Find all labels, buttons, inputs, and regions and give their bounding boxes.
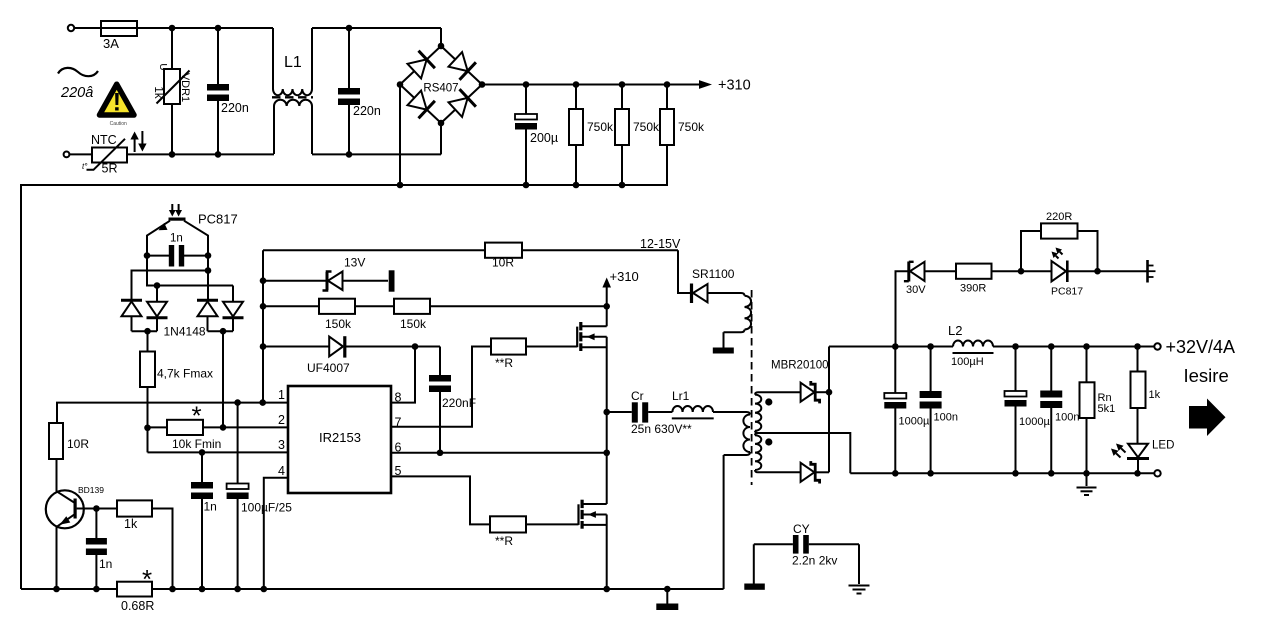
secondary A polarity dot xyxy=(765,398,772,405)
svg-text:NTC: NTC xyxy=(91,133,117,147)
svg-text:L2: L2 xyxy=(948,323,962,338)
svg-text:100µH: 100µH xyxy=(951,356,984,368)
varistor VDR1 xyxy=(152,28,191,154)
node gnd/C12 xyxy=(1012,470,1019,477)
resistor R4 4.7k xyxy=(140,331,213,452)
capacitor C6 1n xyxy=(191,452,217,589)
svg-text:1n: 1n xyxy=(170,233,183,245)
node mid/Cr xyxy=(603,409,610,416)
label MBR20100 xyxy=(771,360,829,372)
capacitor C11 100n xyxy=(920,347,958,474)
node rail/C14 xyxy=(93,586,100,593)
svg-text:Iesire: Iesire xyxy=(1184,365,1229,386)
12-15V supply wire xyxy=(263,237,681,251)
svg-text:SR1100: SR1100 xyxy=(692,267,735,281)
svg-text:**R: **R xyxy=(495,534,513,548)
svg-text:Lr1: Lr1 xyxy=(672,389,690,403)
+32V output terminal xyxy=(1154,343,1160,349)
bridge node top xyxy=(438,43,445,50)
pin label 1 xyxy=(278,388,285,402)
svg-text:220â: 220â xyxy=(60,85,93,101)
svg-text:2.2n 2kv: 2.2n 2kv xyxy=(792,554,837,568)
svg-text:220n: 220n xyxy=(221,101,249,115)
Q2 source to ground rail xyxy=(606,515,608,590)
svg-text:MBR20100: MBR20100 xyxy=(771,360,829,372)
node LED anode xyxy=(1018,268,1025,275)
svg-text:1n: 1n xyxy=(99,557,112,571)
svg-text:L1: L1 xyxy=(284,54,302,71)
choke L1 winding A xyxy=(273,28,312,95)
optocoupler PC817 phototransistor xyxy=(147,204,238,256)
svg-text:1000µ: 1000µ xyxy=(1019,416,1050,428)
+32V rail (left of L2) xyxy=(829,346,953,348)
transistor Q3 BD139 xyxy=(46,459,104,589)
transformer T1 secondary winding B xyxy=(755,433,801,472)
node gnd/Rn xyxy=(1083,470,1090,477)
NTC arrows up/down xyxy=(130,131,146,152)
resistor R5 10k Fmin xyxy=(148,401,222,452)
pin label 5 xyxy=(395,464,402,478)
center tap wire xyxy=(758,433,850,473)
label 1N4148 xyxy=(164,325,206,339)
node 4.7k top xyxy=(144,328,151,335)
pin label 2 xyxy=(278,413,285,427)
node rail/Rn xyxy=(1083,343,1090,350)
svg-text:30V: 30V xyxy=(906,284,926,296)
CY left ground xyxy=(744,544,765,590)
svg-text:12-15V: 12-15V xyxy=(640,237,681,251)
capacitor C8 220nF xyxy=(429,347,476,453)
node +310/C4 xyxy=(523,81,530,88)
bridge diode D4 (bottom-right) xyxy=(449,89,476,117)
resistor R7 10R (base feed) xyxy=(49,423,89,459)
wire to earth xyxy=(1098,270,1147,272)
svg-text:1k: 1k xyxy=(152,86,164,98)
svg-text:PC817: PC817 xyxy=(198,212,238,227)
pin label 7 xyxy=(395,416,402,430)
resistor R13 Rn 5k1 xyxy=(1080,347,1116,474)
resistor R15 390R xyxy=(956,264,1021,295)
svg-text:IR2153: IR2153 xyxy=(319,430,361,445)
node gnd/LED xyxy=(1134,470,1141,477)
node neutral/VDR1 xyxy=(169,151,176,158)
node DC-/bridge xyxy=(397,182,404,189)
node +310/R1 xyxy=(573,81,580,88)
svg-text:200µ: 200µ xyxy=(530,131,558,145)
node rectifier output xyxy=(826,389,833,396)
node D6 anode xyxy=(154,282,161,289)
node rail/C12 xyxy=(1012,343,1019,350)
wire terminal to fuse xyxy=(74,27,101,29)
svg-text:1: 1 xyxy=(278,388,285,402)
svg-text:1k: 1k xyxy=(1149,389,1161,401)
inductor Lr1 xyxy=(672,389,714,418)
label Iesire xyxy=(1184,365,1229,386)
svg-text:BD139: BD139 xyxy=(78,485,104,495)
fuse 3A xyxy=(101,21,137,51)
output arrow icon xyxy=(1189,399,1226,437)
svg-text:CY: CY xyxy=(793,522,810,536)
transformer T1 secondary winding A xyxy=(755,392,801,433)
bridge rectifier RS407 frame xyxy=(400,46,482,123)
secondary earth ground xyxy=(1077,473,1097,495)
choke L1 core xyxy=(272,96,313,98)
transformer T1 core (dashed) xyxy=(751,290,753,485)
optocoupler PC817 LED xyxy=(1021,261,1098,298)
svg-text:220n: 220n xyxy=(353,104,381,118)
svg-text:1N4148: 1N4148 xyxy=(164,325,206,339)
resistor R14 1k xyxy=(1131,347,1161,444)
svg-text:Cr: Cr xyxy=(631,389,644,403)
resistor R17 1k xyxy=(96,500,172,589)
svg-text:+310: +310 xyxy=(718,78,751,94)
node rail/Q3 emitter xyxy=(53,586,60,593)
diode D12 MBR20100 top xyxy=(801,381,829,403)
resistor R11 **R xyxy=(491,338,526,370)
capacitor C2 220n (X cap) xyxy=(338,28,381,154)
svg-text:1n: 1n xyxy=(204,500,217,514)
node neutral/C2 xyxy=(346,151,353,158)
node opto-right / crossover wire xyxy=(205,267,212,274)
pin3 wire xyxy=(148,451,289,453)
svg-text:150k: 150k xyxy=(325,317,352,331)
capacitor C12 1000u xyxy=(1005,347,1051,474)
node rail/ground sym xyxy=(664,586,671,593)
capacitor C1 220n (X cap) xyxy=(207,28,249,154)
AC input terminal (neutral) xyxy=(64,152,70,158)
node rail/C7 xyxy=(234,586,241,593)
diode D7 1N4148 xyxy=(197,300,218,331)
diode D13 MBR20100 bottom xyxy=(801,461,829,483)
PC817 LED arrows xyxy=(1052,248,1063,259)
wire D7/D8 to pin2 wire xyxy=(222,331,224,427)
bridge diode D1 (left-top) xyxy=(408,51,435,79)
wire opto-left down xyxy=(147,256,233,302)
diode D6 1N4148 xyxy=(147,302,168,332)
node pin2 drop xyxy=(220,328,227,335)
primary earth symbol xyxy=(1148,260,1156,283)
svg-text:100n: 100n xyxy=(934,412,958,424)
svg-text:1k: 1k xyxy=(124,517,138,531)
secondary B polarity dot xyxy=(765,438,772,445)
svg-text:Caution: Caution xyxy=(110,121,127,127)
node rail/pin4 xyxy=(261,586,268,593)
aux winding ground xyxy=(713,332,734,353)
neutral wire L1 to bridge xyxy=(312,123,441,154)
node gnd/C10 xyxy=(892,470,899,477)
node line/C1 xyxy=(215,25,222,32)
node rail/C11 xyxy=(927,343,934,350)
zener D9 13V xyxy=(263,256,388,291)
LED arrows xyxy=(1111,444,1126,458)
svg-text:5k1: 5k1 xyxy=(1098,403,1116,415)
transistor Q2 (low-side MOSFET) xyxy=(579,500,607,529)
pin1 wire (Vcc) xyxy=(57,403,288,423)
node UF4007 anode xyxy=(260,343,267,350)
output ground rail xyxy=(850,472,1154,474)
caution triangle xyxy=(100,84,135,127)
transformer T1 primary winding xyxy=(724,412,750,589)
node 150k chain xyxy=(260,303,267,310)
svg-text:750k: 750k xyxy=(678,120,705,134)
resistor R18 0.68R (shunt) xyxy=(117,564,154,613)
pin2 wire xyxy=(203,426,288,428)
svg-text:LED: LED xyxy=(1152,440,1174,452)
svg-text:150k: 150k xyxy=(400,317,427,331)
node DC-/C4 xyxy=(523,182,530,189)
AC source symbol xyxy=(58,68,98,76)
thermistor NTC 5R xyxy=(82,133,127,176)
node DC-/R2 xyxy=(619,182,626,189)
capacitor C13 100n xyxy=(1040,347,1079,474)
zener D11 SR1100 (aux rectifier) xyxy=(678,250,735,303)
svg-text:220nF: 220nF xyxy=(442,396,476,410)
+310 rail arrow xyxy=(699,78,751,94)
wire Lr1 to primary xyxy=(713,411,747,413)
node mid/pin6 xyxy=(603,449,610,456)
svg-text:t°: t° xyxy=(82,162,88,171)
pin7 wire xyxy=(391,347,491,427)
node C5 left xyxy=(144,252,151,259)
node bootstrap/pin8 xyxy=(412,343,419,350)
svg-text:2: 2 xyxy=(278,413,285,427)
pin label 6 xyxy=(395,441,402,455)
capacitor C4 200u xyxy=(515,85,558,186)
svg-text:100n: 100n xyxy=(1055,412,1079,424)
svg-text:750k: 750k xyxy=(587,120,614,134)
node LED cathode xyxy=(1094,268,1101,275)
bottom ground rail (mid) xyxy=(152,588,724,590)
node line/C2 xyxy=(346,25,353,32)
resistor R16 220R bypass xyxy=(1021,211,1098,271)
diode D10 UF4007 xyxy=(263,336,440,375)
svg-text:0.68R: 0.68R xyxy=(121,599,154,613)
bridge node left xyxy=(397,81,404,88)
bottom ground rail (left) xyxy=(21,588,117,590)
resistor R8 10R xyxy=(485,243,522,270)
node DC-/R1 xyxy=(573,182,580,189)
bridge node bottom xyxy=(438,120,445,127)
pin label 8 xyxy=(395,391,402,405)
node rail/30V zener xyxy=(892,343,899,350)
pin label 4 xyxy=(278,464,285,478)
node +310/R3 xyxy=(664,81,671,88)
svg-text:25n 630V**: 25n 630V** xyxy=(631,422,692,436)
wire L1 to C2 to bridge (top) xyxy=(312,28,441,46)
node pin3/C6 xyxy=(199,449,206,456)
bridge node right xyxy=(479,81,486,88)
pin4 wire xyxy=(264,478,288,589)
diode D5 1N4148 xyxy=(121,300,142,331)
label 220V AC xyxy=(60,85,93,101)
svg-text:RS407: RS407 xyxy=(423,83,458,95)
node pin2/1N4148 xyxy=(220,424,227,431)
wire D6 anode drop xyxy=(156,286,158,302)
primary ground symbol xyxy=(656,589,678,610)
node gnd/C11 xyxy=(927,470,934,477)
+310 feed arrow to Q1 xyxy=(602,269,638,326)
pin label 3 xyxy=(278,438,285,452)
capacitor C5 1n xyxy=(147,233,208,267)
label +32V/4A xyxy=(1166,337,1236,357)
svg-text:4: 4 xyxy=(278,464,285,478)
svg-text:220R: 220R xyxy=(1046,211,1072,223)
svg-text:+310: +310 xyxy=(610,269,639,284)
svg-text:10R: 10R xyxy=(67,437,89,451)
wire D7/D8 join xyxy=(208,330,234,332)
pin8 wire xyxy=(391,347,415,403)
label L1 xyxy=(284,54,302,71)
DC- rail xyxy=(21,145,667,589)
capacitor C7 100uF/25 xyxy=(227,403,293,589)
svg-text:!: ! xyxy=(113,89,121,117)
bridge diode D3 (left-bottom) xyxy=(408,91,435,119)
wire D5/D6 join xyxy=(132,330,158,332)
svg-text:390R: 390R xyxy=(960,283,986,295)
neutral wire NTC to L1 xyxy=(127,153,274,155)
node rail/1k xyxy=(1134,343,1141,350)
resistor R2 750k xyxy=(615,85,660,186)
svg-text:+32V/4A: +32V/4A xyxy=(1166,337,1236,357)
CY right earth xyxy=(849,544,870,593)
node 150k/drain xyxy=(603,303,610,310)
wire fuse to L1 (top AC line) xyxy=(137,27,273,29)
AC input terminal (line) xyxy=(68,25,74,31)
choke L1 winding B xyxy=(274,100,312,154)
LED D14 xyxy=(1127,440,1174,474)
diode D8 1N4148 xyxy=(223,302,244,332)
node +310/R2 xyxy=(619,81,626,88)
svg-text:5R: 5R xyxy=(102,162,118,176)
node C5 right xyxy=(205,252,212,259)
wire Vcc feed (12-15V rail to pin1) xyxy=(262,250,264,402)
rectifier output vertical xyxy=(828,347,830,473)
resistor R3 750k xyxy=(660,85,705,186)
svg-text:3A: 3A xyxy=(103,36,119,51)
capacitor C9 Cr xyxy=(607,389,692,436)
svg-text:1000µ: 1000µ xyxy=(899,416,930,428)
transistor Q1 (high-side MOSFET) xyxy=(577,322,607,351)
output ground terminal xyxy=(1154,470,1160,476)
wire bridge left to DC- rail xyxy=(399,85,401,186)
node rail/C13 xyxy=(1048,343,1055,350)
node 13V zener xyxy=(260,277,267,284)
pin5 wire xyxy=(391,476,490,524)
half-bridge mid vertical xyxy=(606,337,608,504)
wire opto-right down xyxy=(207,256,209,299)
node gnd/C13 xyxy=(1048,470,1055,477)
node C8/pin6 xyxy=(437,449,444,456)
svg-text:UF4007: UF4007 xyxy=(307,361,350,375)
svg-text:750k: 750k xyxy=(633,120,660,134)
bridge diode D2 (top-right) xyxy=(449,52,476,80)
wire to D5 cathode xyxy=(132,271,209,300)
svg-text:PC817: PC817 xyxy=(1051,286,1083,298)
node neutral/C1 xyxy=(215,151,222,158)
+32V rail (right of L2) xyxy=(993,346,1154,348)
node Vcc/10R feed xyxy=(259,399,266,406)
svg-text:100µF/25: 100µF/25 xyxy=(241,501,292,515)
svg-text:**R: **R xyxy=(495,356,513,370)
resistors R9 R10 150k chain xyxy=(263,299,607,331)
node 4.7k/10k xyxy=(144,424,151,431)
node Q2/ground rail xyxy=(603,586,610,593)
svg-text:*: * xyxy=(142,564,152,594)
termination bar (13V) xyxy=(389,270,395,291)
node Vcc/C7 xyxy=(234,399,241,406)
node rail/R17 xyxy=(169,586,176,593)
transformer T1 aux winding xyxy=(710,293,751,332)
svg-text:10R: 10R xyxy=(492,256,514,270)
pin6 wire xyxy=(391,452,607,454)
svg-text:4,7k Fmax: 4,7k Fmax xyxy=(157,367,213,381)
node base/C14 xyxy=(93,505,100,512)
capacitor C10 1000u xyxy=(884,347,930,474)
resistor R1 750k xyxy=(569,85,614,186)
wire bridge to +310 xyxy=(482,84,700,86)
resistor R12 **R xyxy=(490,516,526,548)
IC U2 IR2153 xyxy=(288,386,391,493)
inductor L2 xyxy=(948,323,994,368)
svg-text:10k Fmin: 10k Fmin xyxy=(172,437,221,451)
capacitor C15 CY xyxy=(754,522,859,568)
wire R11 to Q1 gate xyxy=(526,346,577,348)
svg-text:U: U xyxy=(157,63,168,70)
wire terminal to NTC xyxy=(69,153,92,155)
node rail/C6 xyxy=(199,586,206,593)
wire R12 to Q2 gate xyxy=(526,523,579,525)
capacitor C14 1n xyxy=(86,509,112,590)
svg-text:VDR1: VDR1 xyxy=(179,73,191,102)
svg-text:13V: 13V xyxy=(344,256,365,270)
svg-text:*: * xyxy=(191,401,201,431)
svg-text:3: 3 xyxy=(278,438,285,452)
zener D15 30V xyxy=(896,262,957,347)
node line/VDR1 xyxy=(169,25,176,32)
